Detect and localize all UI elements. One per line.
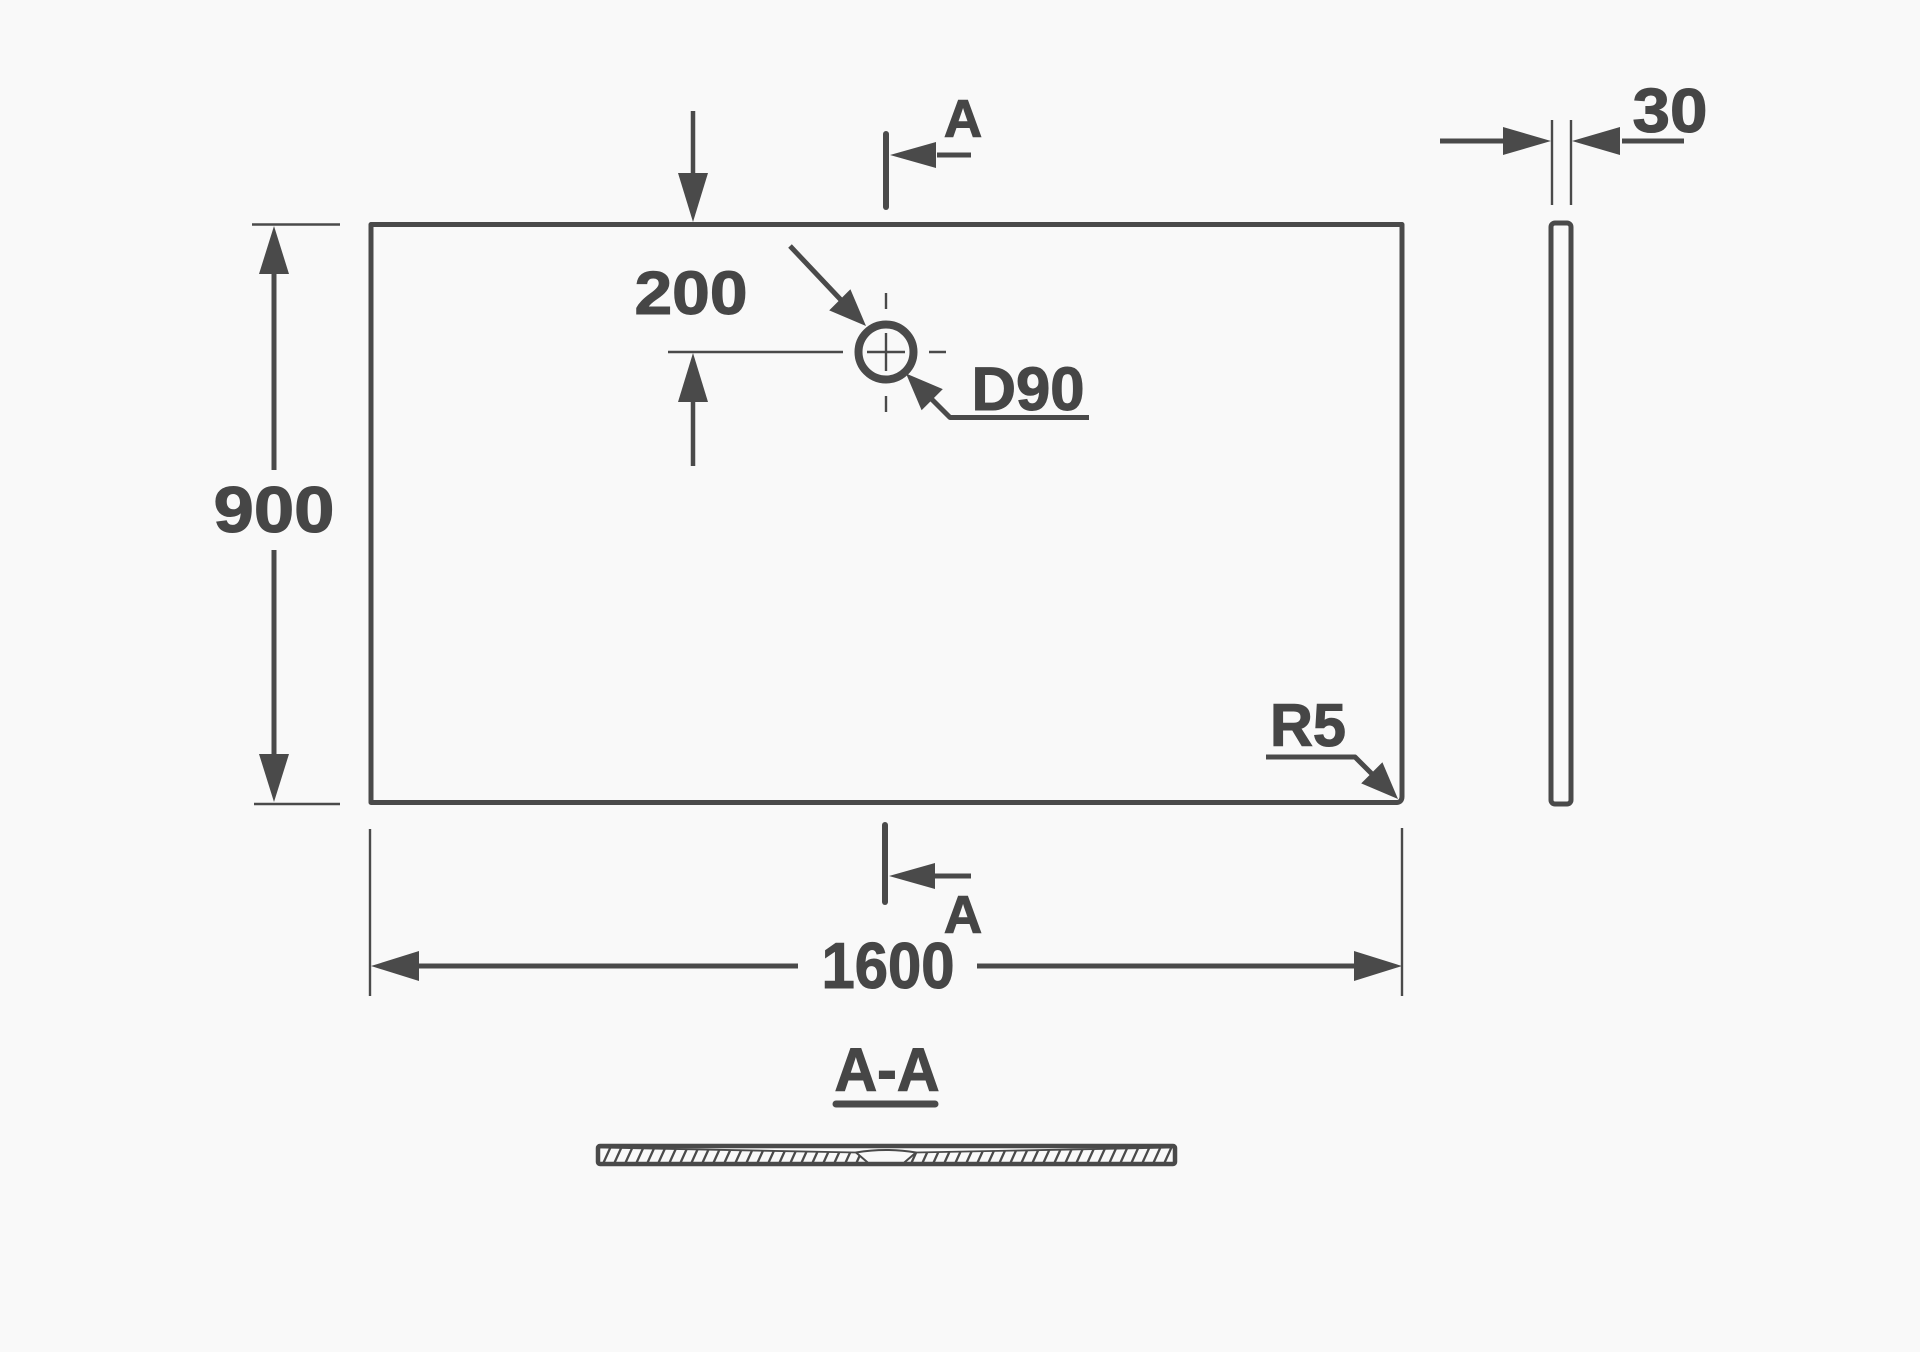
svg-text:R5: R5 <box>1270 692 1346 759</box>
svg-text:A: A <box>944 886 982 945</box>
svg-text:200: 200 <box>635 259 748 327</box>
svg-text:D90: D90 <box>972 355 1085 423</box>
svg-text:30: 30 <box>1633 77 1708 146</box>
svg-text:1600: 1600 <box>822 929 955 1002</box>
svg-text:A: A <box>944 90 982 149</box>
svg-text:A-A: A-A <box>835 1036 940 1104</box>
svg-text:900: 900 <box>214 473 335 546</box>
